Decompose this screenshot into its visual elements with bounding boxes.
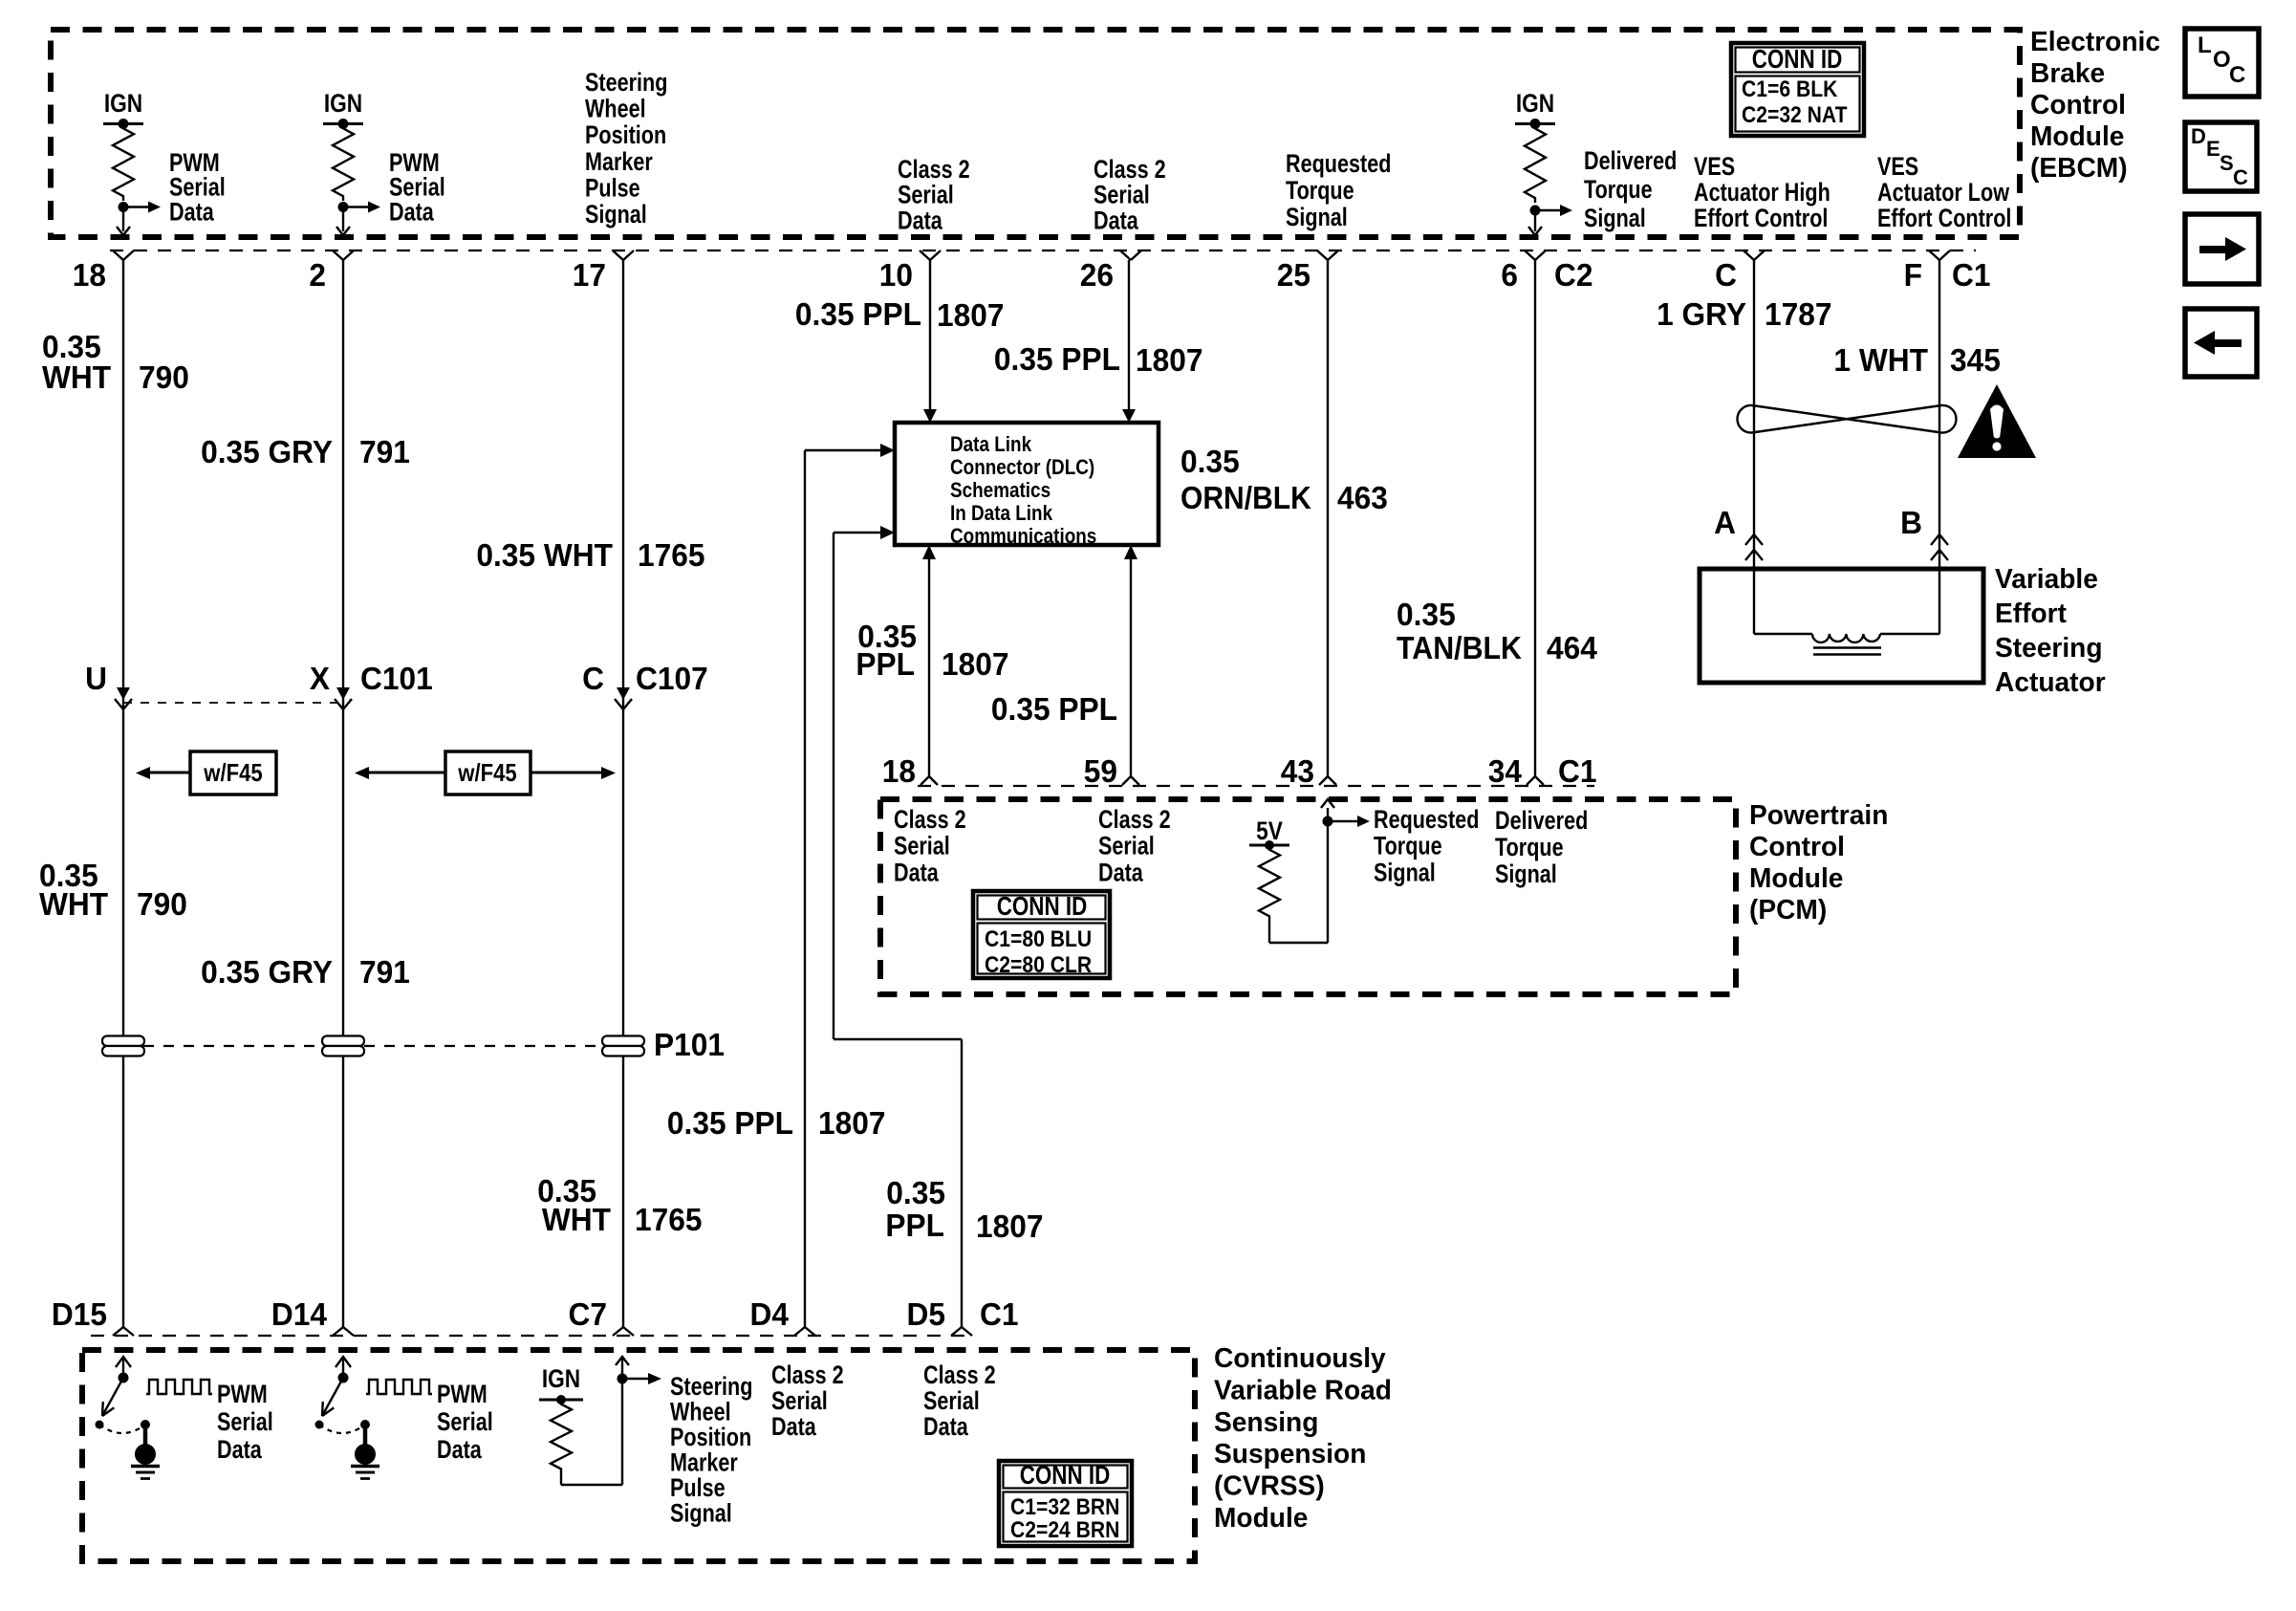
svg-text:U: U bbox=[85, 661, 107, 696]
PWM serial data arrow 1 bbox=[123, 202, 161, 213]
wire label 0.35 ORN/BLK 463 bbox=[1180, 444, 1388, 515]
svg-text:E: E bbox=[2206, 137, 2220, 161]
PWM Serial Data label (CVRSS 1) bbox=[217, 1380, 273, 1464]
Steering Wheel Position Marker Pulse Signal label (CVRSS) bbox=[670, 1372, 752, 1528]
svg-text:0.35 PPL: 0.35 PPL bbox=[994, 341, 1120, 377]
wire 463 segment bbox=[1327, 260, 1329, 776]
Class 2 Serial Data label (EBCM pin 10) bbox=[898, 155, 970, 234]
svg-text:59: 59 bbox=[1084, 753, 1117, 789]
in-line connector C101 terminal U bbox=[85, 661, 132, 709]
svg-text:Data: Data bbox=[437, 1435, 483, 1464]
svg-text:6: 6 bbox=[1501, 257, 1518, 293]
EBCM connector face dashed line bbox=[110, 250, 1976, 251]
svg-text:D4: D4 bbox=[750, 1296, 790, 1332]
connector id C1 (PCM) bbox=[1558, 753, 1597, 789]
svg-text:Class 2: Class 2 bbox=[923, 1361, 996, 1389]
5V supply bar (PCM) bbox=[1249, 840, 1289, 850]
IGN feed label 1 bbox=[104, 89, 142, 118]
pin D14 (CVRSS) bbox=[271, 1296, 354, 1336]
Requested torque arrow (PCM) bbox=[1328, 816, 1370, 827]
svg-text:VES: VES bbox=[1694, 152, 1735, 181]
svg-text:Control: Control bbox=[1749, 832, 1845, 862]
ground 1 (CVRSS) bbox=[131, 1420, 160, 1479]
svg-text:C2: C2 bbox=[1554, 257, 1593, 293]
wire 1807 DLC-to-CVRSS D5 segment bbox=[834, 533, 962, 1327]
svg-text:Effort Control: Effort Control bbox=[1877, 204, 2011, 232]
svg-text:Data: Data bbox=[217, 1435, 263, 1464]
svg-text:17: 17 bbox=[573, 257, 606, 293]
svg-text:1 GRY: 1 GRY bbox=[1657, 296, 1746, 332]
svg-text:Requested: Requested bbox=[1286, 149, 1391, 178]
svg-text:w/F45: w/F45 bbox=[203, 758, 262, 787]
PCM connector face dashed line bbox=[918, 785, 1594, 787]
PCM pull-up elbow wire bbox=[1269, 921, 1328, 943]
junction node 3 bbox=[1530, 206, 1541, 216]
pin 17 (EBCM) bbox=[573, 250, 634, 293]
wire label 0.35 PPL 1807 (pin 26) bbox=[994, 341, 1203, 378]
wire label 0.35 WHT 1765 (lower) bbox=[537, 1173, 702, 1237]
pin C (EBCM) bbox=[1715, 250, 1765, 293]
svg-text:Variable: Variable bbox=[1995, 564, 2098, 595]
pin 18 (EBCM) bbox=[73, 250, 134, 293]
ground 2 (CVRSS) bbox=[351, 1420, 379, 1479]
svg-text:34: 34 bbox=[1488, 753, 1523, 789]
resistor (EBCM pull-up 3) bbox=[1525, 124, 1546, 204]
svg-text:C1: C1 bbox=[1558, 753, 1597, 789]
VES Actuator High Effort Control label bbox=[1694, 152, 1830, 232]
svg-text:C: C bbox=[2233, 165, 2248, 189]
svg-text:Electronic: Electronic bbox=[2030, 27, 2160, 57]
resistor (EBCM pull-up 2) bbox=[333, 124, 354, 202]
wire label 0.35 WHT 790 (lower) bbox=[39, 858, 187, 922]
P101 pass-through dashed tie line bbox=[123, 1045, 623, 1047]
svg-text:0.35 PPL: 0.35 PPL bbox=[667, 1105, 793, 1141]
PCM module dashed box bbox=[880, 799, 1736, 994]
svg-text:C: C bbox=[582, 661, 604, 696]
wire 1807 DLC-to-PCM pin 59 segment bbox=[1124, 545, 1137, 776]
svg-text:1765: 1765 bbox=[638, 537, 705, 573]
svg-text:PWM: PWM bbox=[217, 1380, 268, 1408]
svg-text:Signal: Signal bbox=[1584, 204, 1646, 232]
w/F45 branch box (left) bbox=[136, 751, 276, 795]
wire label 1 GRY 1787 bbox=[1657, 296, 1831, 332]
IGN feed label (CVRSS) bbox=[542, 1364, 580, 1393]
Class 2 Serial Data label (CVRSS D4) bbox=[771, 1361, 844, 1441]
svg-text:Effort: Effort bbox=[1995, 599, 2067, 629]
svg-text:Steering: Steering bbox=[670, 1372, 752, 1401]
pin D4 (CVRSS) bbox=[750, 1296, 816, 1336]
PWM Serial Data label 1 bbox=[169, 148, 226, 226]
svg-text:1807: 1807 bbox=[818, 1105, 886, 1141]
IGN feed bar (CVRSS) bbox=[539, 1395, 583, 1404]
svg-text:Communications: Communications bbox=[950, 524, 1096, 548]
svg-text:C2=32 NAT: C2=32 NAT bbox=[1742, 102, 1848, 128]
DLC left arrow (from D4 wire) bbox=[805, 444, 895, 457]
svg-text:B: B bbox=[1900, 505, 1922, 540]
svg-text:Torque: Torque bbox=[1584, 175, 1653, 204]
svg-text:Brake: Brake bbox=[2030, 58, 2105, 89]
wire label 1 WHT 345 bbox=[1833, 342, 2001, 378]
svg-text:Serial: Serial bbox=[923, 1386, 980, 1415]
Continuously Variable Road Sensing Suspension (CVRSS) Module name bbox=[1214, 1343, 1392, 1534]
steering wheel marker arrow (CVRSS) bbox=[622, 1373, 661, 1384]
svg-text:WHT: WHT bbox=[42, 359, 111, 395]
svg-text:43: 43 bbox=[1281, 753, 1314, 789]
svg-text:Signal: Signal bbox=[1286, 203, 1348, 231]
wire label 0.35 WHT 1765 (upper) bbox=[476, 537, 704, 573]
IGN feed bar 3 bbox=[1515, 119, 1555, 129]
svg-text:Position: Position bbox=[585, 120, 666, 149]
DLC left arrow (from D5 wire) bbox=[834, 526, 895, 539]
Class 2 Serial Data label (PCM pin 59) bbox=[1098, 805, 1171, 886]
svg-text:463: 463 bbox=[1337, 480, 1388, 515]
svg-text:In Data Link: In Data Link bbox=[950, 501, 1052, 525]
svg-text:Serial: Serial bbox=[217, 1407, 273, 1436]
svg-text:Schematics: Schematics bbox=[950, 478, 1051, 502]
svg-text:Delivered: Delivered bbox=[1495, 806, 1588, 835]
svg-text:Module: Module bbox=[2030, 121, 2124, 152]
svg-text:IGN: IGN bbox=[324, 89, 362, 118]
svg-text:Requested: Requested bbox=[1374, 805, 1479, 834]
wire 1765 segment bbox=[622, 260, 624, 1327]
5V supply label (PCM) bbox=[1256, 816, 1283, 845]
wire label 0.35 GRY 791 (upper) bbox=[201, 434, 410, 469]
svg-text:Torque: Torque bbox=[1286, 176, 1354, 205]
svg-text:WHT: WHT bbox=[542, 1202, 611, 1237]
svg-text:C1=32 BRN: C1=32 BRN bbox=[1010, 1494, 1119, 1520]
svg-text:C: C bbox=[2229, 62, 2245, 88]
svg-text:CONN ID: CONN ID bbox=[997, 891, 1088, 921]
svg-text:Data Link: Data Link bbox=[950, 432, 1032, 456]
svg-text:(EBCM): (EBCM) bbox=[2030, 153, 2128, 184]
svg-text:Serial: Serial bbox=[1098, 832, 1155, 860]
PWM driver switch 2 (CVRSS) bbox=[315, 1357, 352, 1429]
svg-text:Serial: Serial bbox=[437, 1407, 493, 1436]
svg-text:0.35 GRY: 0.35 GRY bbox=[201, 434, 333, 469]
svg-text:25: 25 bbox=[1277, 257, 1310, 293]
wire to pin (EBCM 2) bbox=[336, 207, 350, 236]
svg-text:1787: 1787 bbox=[1765, 296, 1832, 332]
right-arrow legend box bbox=[2185, 214, 2259, 284]
svg-text:Position: Position bbox=[670, 1423, 751, 1451]
svg-text:1807: 1807 bbox=[1136, 342, 1203, 378]
svg-text:Signal: Signal bbox=[670, 1499, 732, 1528]
PWM waveform symbol 2 bbox=[366, 1380, 432, 1394]
switch throw dashed arc 1 bbox=[99, 1425, 145, 1433]
svg-text:Module: Module bbox=[1214, 1503, 1308, 1534]
wire to pin (EBCM 1) bbox=[117, 207, 130, 236]
Variable Effort Steering Actuator name bbox=[1995, 564, 2106, 698]
svg-text:26: 26 bbox=[1080, 257, 1114, 293]
svg-text:Actuator: Actuator bbox=[1995, 667, 2106, 698]
Variable Effort Steering Actuator box bbox=[1700, 569, 1983, 683]
pin 2 (EBCM) bbox=[309, 250, 354, 293]
CVRSS module dashed box bbox=[82, 1350, 1195, 1561]
junction node 1 bbox=[119, 202, 129, 212]
svg-text:Sensing: Sensing bbox=[1214, 1407, 1318, 1438]
svg-text:Pulse: Pulse bbox=[585, 173, 640, 202]
svg-text:0.35: 0.35 bbox=[1397, 597, 1456, 632]
svg-text:Module: Module bbox=[1749, 863, 1843, 894]
pin D5 (CVRSS) bbox=[907, 1296, 973, 1336]
svg-text:VES: VES bbox=[1877, 152, 1918, 181]
wire label 0.35 PPL 1807 (near D5) bbox=[885, 1175, 1043, 1244]
wire 1765 inside CVRSS bbox=[616, 1357, 629, 1485]
grommet P101 (wire 1765) bbox=[602, 1027, 725, 1062]
pin D15 (CVRSS) bbox=[52, 1296, 134, 1336]
svg-text:Pulse: Pulse bbox=[670, 1473, 726, 1502]
PWM serial data arrow 2 bbox=[343, 202, 380, 213]
svg-text:Data: Data bbox=[894, 858, 940, 886]
resistor (PCM 5V pull-up) bbox=[1259, 845, 1280, 921]
CVRSS connector face dashed line bbox=[91, 1335, 965, 1337]
DESC legend box bbox=[2185, 122, 2257, 191]
VES actuator coil bbox=[1754, 569, 1939, 655]
svg-text:790: 790 bbox=[139, 359, 189, 395]
warning triangle symbol bbox=[1958, 384, 2036, 458]
svg-text:PPL: PPL bbox=[856, 646, 915, 682]
pin 34 (PCM) bbox=[1488, 753, 1544, 789]
svg-text:Suspension: Suspension bbox=[1214, 1439, 1366, 1469]
svg-text:C1=6 BLK: C1=6 BLK bbox=[1742, 76, 1838, 102]
svg-text:0.35: 0.35 bbox=[886, 1175, 945, 1210]
left-arrow legend box bbox=[2185, 309, 2257, 377]
w/F45 branch box (right) bbox=[355, 751, 616, 795]
svg-text:Data: Data bbox=[923, 1412, 969, 1441]
svg-text:Class 2: Class 2 bbox=[1098, 805, 1171, 834]
svg-text:Signal: Signal bbox=[1495, 860, 1557, 888]
svg-text:C: C bbox=[1715, 257, 1737, 293]
svg-text:X: X bbox=[310, 661, 330, 696]
Requested Torque Signal label (PCM) bbox=[1374, 805, 1479, 886]
svg-text:Serial: Serial bbox=[771, 1386, 828, 1415]
Requested Torque Signal label (EBCM) bbox=[1286, 149, 1391, 231]
svg-text:A: A bbox=[1714, 505, 1736, 540]
svg-text:Marker: Marker bbox=[585, 147, 653, 176]
pin 6 (EBCM) bbox=[1501, 250, 1546, 293]
wire label 0.35 TAN/BLK 464 bbox=[1397, 597, 1598, 665]
Class 2 Serial Data label (EBCM pin 26) bbox=[1094, 155, 1166, 234]
svg-text:18: 18 bbox=[882, 753, 916, 789]
svg-text:1807: 1807 bbox=[976, 1208, 1044, 1244]
Data Link Connector (DLC) box bbox=[895, 423, 1159, 548]
svg-text:464: 464 bbox=[1547, 630, 1598, 665]
wire to pin 6 bbox=[1528, 210, 1542, 235]
svg-text:1807: 1807 bbox=[942, 646, 1009, 682]
CONN ID box (PCM) bbox=[973, 891, 1110, 978]
VES actuator terminal A bbox=[1714, 505, 1763, 560]
svg-text:WHT: WHT bbox=[39, 886, 108, 922]
svg-text:Variable Road: Variable Road bbox=[1214, 1375, 1392, 1405]
EBCM module dashed box bbox=[51, 30, 2020, 237]
Delivered torque arrow bbox=[1535, 205, 1572, 216]
svg-text:Wheel: Wheel bbox=[670, 1398, 731, 1426]
IGN feed label 3 bbox=[1516, 89, 1554, 118]
svg-text:Data: Data bbox=[389, 197, 435, 226]
svg-text:P101: P101 bbox=[654, 1027, 725, 1062]
svg-text:Powertrain: Powertrain bbox=[1749, 800, 1888, 831]
svg-text:C7: C7 bbox=[569, 1296, 608, 1332]
wire label 0.35 PPL 1807 (pin 10) bbox=[795, 296, 1005, 333]
VES actuator terminal B bbox=[1900, 505, 1948, 560]
svg-text:IGN: IGN bbox=[542, 1364, 580, 1393]
wire label 0.35 GRY 791 (lower) bbox=[201, 954, 410, 990]
connector id C2 (EBCM) bbox=[1554, 257, 1593, 293]
connector id C1 (EBCM) bbox=[1952, 257, 1991, 293]
wire 791 upper segment bbox=[342, 260, 344, 1327]
in-line connector C101 terminal X bbox=[310, 661, 433, 709]
Class 2 Serial Data label (CVRSS D5) bbox=[923, 1361, 996, 1441]
PWM Serial Data label (CVRSS 2) bbox=[437, 1380, 493, 1464]
svg-text:C1: C1 bbox=[980, 1296, 1019, 1332]
svg-text:Wheel: Wheel bbox=[585, 95, 646, 123]
svg-text:PPL: PPL bbox=[885, 1208, 944, 1243]
pin 25 (EBCM) bbox=[1277, 250, 1338, 293]
svg-text:0.35 PPL: 0.35 PPL bbox=[795, 296, 921, 332]
svg-text:Data: Data bbox=[898, 206, 943, 234]
grommet P101 (wire 791) bbox=[322, 1036, 364, 1056]
svg-text:IGN: IGN bbox=[1516, 89, 1554, 118]
Delivered Torque Signal label (EBCM) bbox=[1584, 146, 1677, 232]
svg-text:CONN ID: CONN ID bbox=[1752, 44, 1843, 74]
svg-text:Marker: Marker bbox=[670, 1448, 738, 1477]
wire 1807 EBCM-to-DLC segment (pin 10) bbox=[923, 260, 937, 423]
pin F (EBCM) bbox=[1904, 250, 1950, 293]
wire label 0.35 WHT 790 (upper) bbox=[42, 329, 189, 395]
svg-text:F: F bbox=[1904, 257, 1922, 293]
wire 1807 DLC-to-PCM pin 18 segment bbox=[922, 545, 936, 776]
svg-text:790: 790 bbox=[137, 886, 187, 922]
pin 43 (PCM) bbox=[1281, 753, 1336, 789]
svg-text:CONN ID: CONN ID bbox=[1020, 1460, 1111, 1490]
svg-text:Serial: Serial bbox=[894, 832, 950, 860]
svg-text:D5: D5 bbox=[907, 1296, 946, 1332]
C101 connector dashed tie line bbox=[123, 702, 343, 704]
PWM driver switch 1 (CVRSS) bbox=[96, 1357, 132, 1429]
wire 1807 DLC-to-CVRSS D4 segment bbox=[804, 450, 806, 1327]
svg-text:18: 18 bbox=[73, 257, 106, 293]
svg-text:(CVRSS): (CVRSS) bbox=[1214, 1471, 1325, 1502]
svg-text:Torque: Torque bbox=[1495, 833, 1564, 861]
svg-text:1765: 1765 bbox=[635, 1202, 703, 1237]
grommet P101 (wire 790) bbox=[102, 1036, 144, 1056]
svg-text:C2=80 CLR: C2=80 CLR bbox=[985, 952, 1092, 978]
svg-text:Data: Data bbox=[771, 1412, 817, 1441]
svg-text:Serial: Serial bbox=[1094, 181, 1150, 209]
svg-text:Delivered: Delivered bbox=[1584, 146, 1677, 175]
svg-text:791: 791 bbox=[359, 434, 410, 469]
svg-text:D14: D14 bbox=[271, 1296, 328, 1332]
svg-text:S: S bbox=[2220, 151, 2234, 175]
wire 464 segment bbox=[1534, 260, 1536, 776]
in-line connector C107 terminal C bbox=[582, 661, 708, 709]
svg-text:1 WHT: 1 WHT bbox=[1833, 342, 1928, 378]
svg-text:Torque: Torque bbox=[1374, 832, 1442, 860]
svg-text:Steering: Steering bbox=[585, 68, 667, 97]
switch throw dashed arc 2 bbox=[319, 1425, 365, 1433]
wire 1807 EBCM-to-DLC segment (pin 26) bbox=[1122, 260, 1136, 423]
VES Actuator Low Effort Control label bbox=[1877, 152, 2011, 232]
svg-text:791: 791 bbox=[359, 954, 410, 990]
junction node 2 bbox=[338, 202, 349, 212]
svg-text:Control: Control bbox=[2030, 90, 2126, 120]
resistor (CVRSS pull-up) bbox=[551, 1400, 572, 1473]
svg-text:0.35 GRY: 0.35 GRY bbox=[201, 954, 333, 990]
PWM Serial Data label 2 bbox=[389, 148, 445, 226]
svg-text:Effort Control: Effort Control bbox=[1694, 204, 1828, 232]
wire 790 upper segment bbox=[122, 260, 124, 1327]
svg-text:Class 2: Class 2 bbox=[898, 155, 970, 184]
Powertrain Control Module (PCM) name bbox=[1749, 800, 1888, 925]
svg-text:C1: C1 bbox=[1952, 257, 1991, 293]
svg-text:Signal: Signal bbox=[1374, 858, 1436, 886]
svg-text:PWM: PWM bbox=[437, 1380, 487, 1408]
IGN feed bar 2 bbox=[323, 119, 363, 129]
svg-text:Data: Data bbox=[169, 197, 215, 226]
svg-text:1807: 1807 bbox=[937, 297, 1005, 333]
svg-text:Class 2: Class 2 bbox=[894, 805, 966, 834]
pin 26 (EBCM) bbox=[1080, 250, 1141, 293]
pin 18 (PCM) bbox=[882, 753, 938, 789]
svg-text:2: 2 bbox=[309, 257, 326, 293]
svg-text:C1=80 BLU: C1=80 BLU bbox=[985, 926, 1092, 952]
wire label 0.35 PPL (DLC to pin 59) bbox=[991, 691, 1117, 727]
svg-text:D15: D15 bbox=[52, 1296, 107, 1332]
svg-text:Data: Data bbox=[1094, 206, 1139, 234]
svg-text:0.35: 0.35 bbox=[1180, 444, 1240, 479]
svg-text:C101: C101 bbox=[360, 661, 433, 696]
svg-text:w/F45: w/F45 bbox=[457, 758, 516, 787]
svg-text:Connector (DLC): Connector (DLC) bbox=[950, 455, 1094, 479]
IGN feed bar 1 bbox=[103, 119, 143, 129]
svg-text:(PCM): (PCM) bbox=[1749, 895, 1827, 925]
PWM waveform symbol 1 bbox=[146, 1380, 212, 1394]
Electronic Brake Control Module (EBCM) name bbox=[2030, 27, 2160, 184]
wire label 0.35 PPL 1807 (near D4) bbox=[667, 1105, 886, 1141]
wire 1787 segment bbox=[1753, 260, 1755, 569]
CONN ID box (EBCM) bbox=[1731, 43, 1864, 136]
CONN ID box (CVRSS) bbox=[999, 1460, 1132, 1546]
pin C7 (CVRSS) bbox=[569, 1296, 635, 1336]
wire 345 segment bbox=[1939, 260, 1940, 569]
svg-text:D: D bbox=[2191, 124, 2206, 148]
svg-text:IGN: IGN bbox=[104, 89, 142, 118]
svg-text:TAN/BLK: TAN/BLK bbox=[1397, 630, 1522, 665]
svg-text:Class 2: Class 2 bbox=[771, 1361, 844, 1389]
svg-text:ORN/BLK: ORN/BLK bbox=[1180, 480, 1311, 515]
svg-text:C2=24 BRN: C2=24 BRN bbox=[1010, 1517, 1119, 1543]
pin 59 (PCM) bbox=[1084, 753, 1139, 789]
svg-text:C107: C107 bbox=[636, 661, 708, 696]
svg-text:Steering: Steering bbox=[1995, 633, 2103, 664]
Steering Wheel Position Marker Pulse Signal label (EBCM) bbox=[585, 68, 667, 229]
svg-text:Continuously: Continuously bbox=[1214, 1343, 1386, 1374]
connector id C1 (CVRSS) bbox=[980, 1296, 1019, 1332]
IGN feed label 2 bbox=[324, 89, 362, 118]
svg-text:L: L bbox=[2198, 33, 2212, 58]
resistor (EBCM pull-up 1) bbox=[113, 124, 134, 202]
wire label 0.35 PPL 1807 (DLC to pin 18) bbox=[856, 619, 1008, 682]
LOC legend box bbox=[2185, 29, 2259, 97]
svg-text:0.35 PPL: 0.35 PPL bbox=[991, 691, 1117, 727]
wire 463 inside PCM bbox=[1321, 799, 1334, 943]
svg-text:Signal: Signal bbox=[585, 200, 647, 229]
svg-text:Serial: Serial bbox=[898, 181, 954, 209]
CVRSS pull-up elbow wire bbox=[561, 1473, 622, 1485]
svg-text:O: O bbox=[2213, 47, 2231, 73]
Delivered Torque Signal label (PCM) bbox=[1495, 806, 1588, 888]
svg-text:Data: Data bbox=[1098, 858, 1144, 886]
